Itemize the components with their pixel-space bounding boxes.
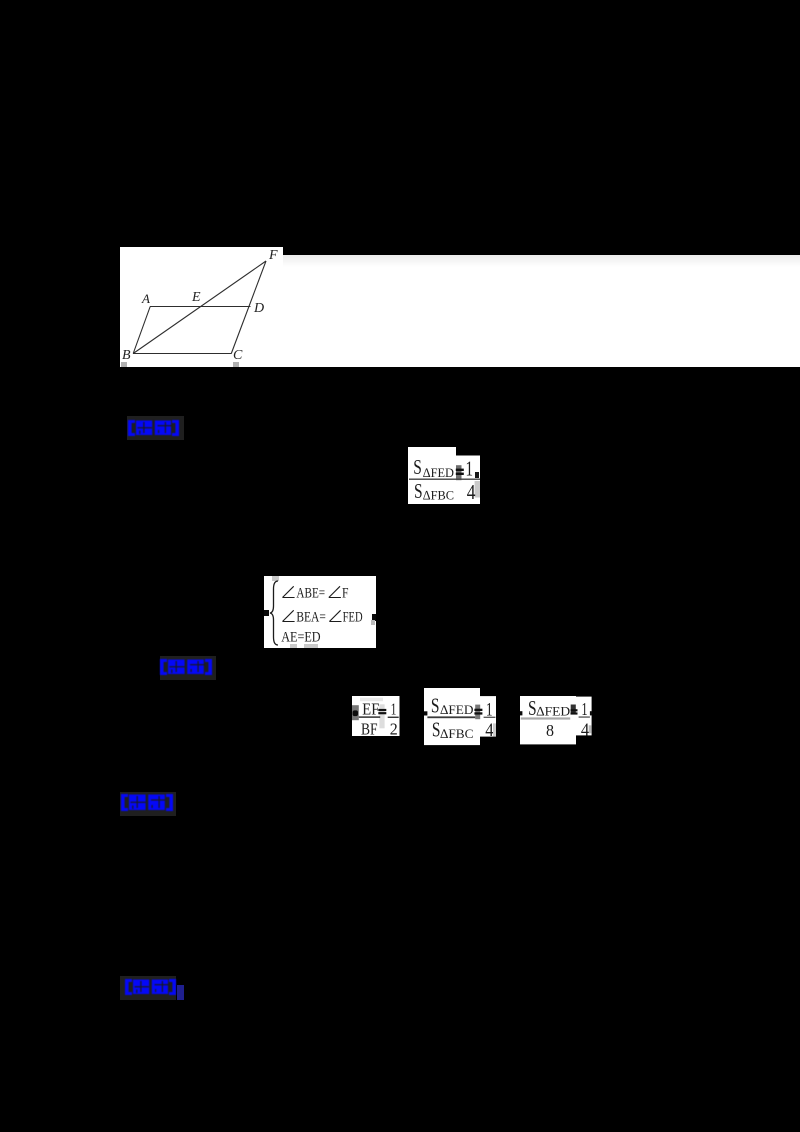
label 3 blue bracket text — [120, 792, 176, 816]
wire: side AB — [133, 307, 150, 354]
svg-text:S: S — [528, 696, 537, 720]
figure drawing: parallelogram ABCD with E on AD, F on extension — [120, 247, 283, 367]
navy cursor block after label 4 — [177, 985, 184, 1000]
svg-text:S: S — [432, 717, 441, 741]
svg-text:∆FBC: ∆FBC — [440, 725, 473, 740]
svg-text:F: F — [342, 585, 349, 600]
svg-text:BF: BF — [361, 719, 378, 737]
handle under B — [121, 362, 127, 367]
svg-text:B: B — [122, 348, 131, 363]
svg-text:4: 4 — [581, 719, 589, 739]
comma right edge — [372, 614, 376, 621]
svg-text:A: A — [141, 291, 150, 306]
label 2 blue bracket text — [160, 656, 216, 680]
label 4 blue bracket text — [120, 976, 176, 1000]
svg-text:∆FBC: ∆FBC — [423, 487, 454, 502]
svg-text:E: E — [191, 290, 201, 305]
svg-text:4: 4 — [485, 721, 493, 741]
svg-text:1: 1 — [391, 699, 397, 718]
wire: line BEF — [133, 261, 266, 354]
svg-text:∆FED: ∆FED — [440, 702, 473, 717]
svg-text:4: 4 — [467, 479, 476, 503]
eq row 1: angle ABE = angle F — [282, 584, 354, 600]
eq row 2: angle BEA = angle FED — [282, 608, 374, 624]
label 1 blue bracket text — [127, 416, 184, 440]
white band right of figure — [283, 255, 800, 367]
svg-text:2: 2 — [390, 719, 398, 737]
eq row 3: AE=ED — [281, 628, 325, 644]
handle under C — [233, 362, 239, 368]
black square left of box — [264, 610, 269, 616]
gray squares bottom edge — [290, 644, 297, 648]
svg-text:1: 1 — [466, 456, 474, 480]
svg-text:S: S — [413, 454, 422, 478]
gray tab top of box — [272, 576, 279, 581]
formula 2: EF/BF = 1/2 — [352, 696, 400, 737]
wire: side AD through E — [150, 306, 251, 308]
wire: side BC — [133, 353, 232, 355]
equation system white box — [264, 576, 376, 648]
figure white box — [120, 247, 283, 367]
svg-text:F: F — [268, 248, 278, 263]
wire: line FDC — [231, 261, 266, 354]
svg-text:D: D — [253, 301, 264, 316]
svg-text:∆FED: ∆FED — [536, 703, 570, 718]
svg-text:C: C — [233, 348, 243, 363]
svg-text:ABE=: ABE= — [296, 585, 325, 600]
formula 1: S_triangle-FED over S_triangle-FBC = 1/4 — [408, 447, 480, 504]
svg-text:EF: EF — [362, 699, 379, 718]
left curly brace — [268, 580, 280, 646]
gray marks right edge — [371, 620, 374, 625]
svg-text:1: 1 — [581, 699, 587, 719]
formula 4: S_FED/8 = 1/4 — [520, 696, 592, 745]
svg-text:BEA=: BEA= — [296, 609, 325, 624]
svg-text:∆FED: ∆FED — [423, 464, 454, 479]
svg-text:AE=ED: AE=ED — [281, 630, 320, 645]
svg-text:S: S — [431, 693, 440, 717]
svg-text:8: 8 — [546, 721, 554, 740]
svg-text:FED: FED — [343, 609, 363, 624]
formula 3: S_FED/S_FBC = 1/4 — [424, 688, 496, 746]
svg-text:S: S — [414, 479, 423, 503]
